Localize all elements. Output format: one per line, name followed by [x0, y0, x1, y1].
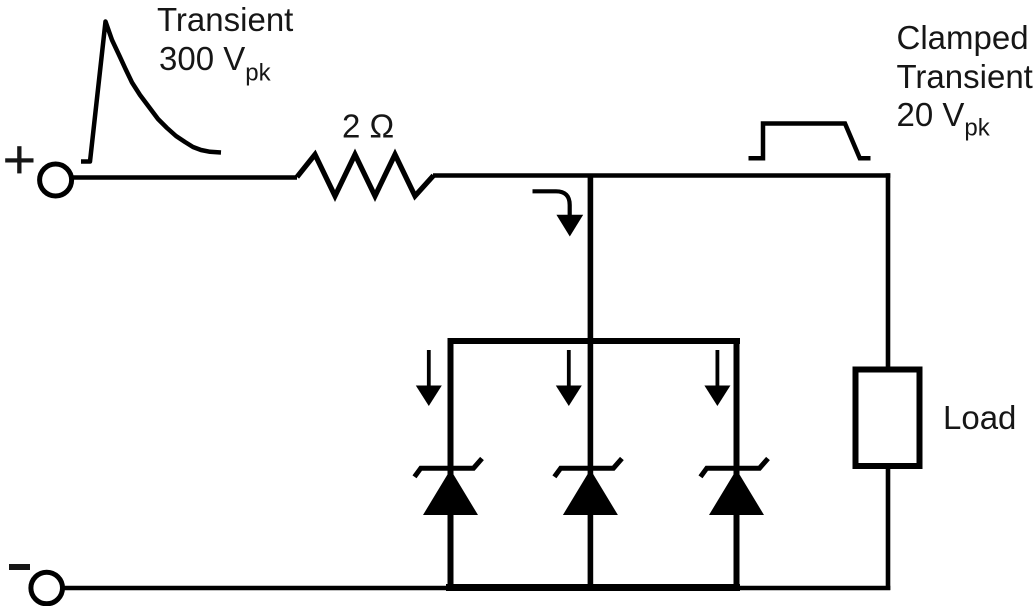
resistor R1 — [297, 155, 434, 197]
TVS array right branch wire — [734, 338, 740, 588]
svg-text:Load: Load — [943, 399, 1016, 436]
minus sign label — [9, 564, 30, 570]
TVS array bottom rail — [446, 584, 740, 591]
TVS array left branch wire — [448, 338, 454, 588]
zener diode D3 — [701, 459, 769, 516]
svg-text:Transient: Transient — [897, 58, 1033, 95]
svg-text:2 Ω: 2 Ω — [342, 108, 394, 145]
current arrow above D3 — [704, 350, 730, 406]
load resistor box — [856, 370, 920, 467]
current arrow into clamp node — [533, 191, 584, 236]
clamped output waveform sketch — [749, 124, 871, 159]
wire: right branch down to load — [886, 173, 891, 368]
current arrow above D2 — [556, 350, 582, 406]
plus sign label — [5, 146, 33, 173]
bottom return wire — [63, 586, 891, 591]
TVS array top rail — [448, 338, 741, 344]
wire: load to bottom rail — [886, 466, 891, 590]
wire: resistor to right corner — [433, 173, 890, 178]
terminal T2 (negative return, circle) — [31, 572, 63, 604]
wire: + terminal to resistor — [71, 175, 297, 180]
node vertical wire (clamp bus) — [588, 176, 594, 589]
label "Transient 300 Vpk" — [157, 1, 293, 86]
terminal T1 (positive input, circle) — [40, 164, 72, 196]
zener diode D1 — [415, 459, 483, 516]
transient input waveform sketch — [81, 22, 221, 162]
svg-text:Transient: Transient — [157, 1, 293, 38]
current arrow above D1 — [416, 350, 442, 406]
zener diode D2 — [554, 459, 622, 516]
svg-text:Clamped: Clamped — [897, 19, 1029, 56]
label "Clamped Transient 20 Vpk" — [897, 19, 1033, 142]
